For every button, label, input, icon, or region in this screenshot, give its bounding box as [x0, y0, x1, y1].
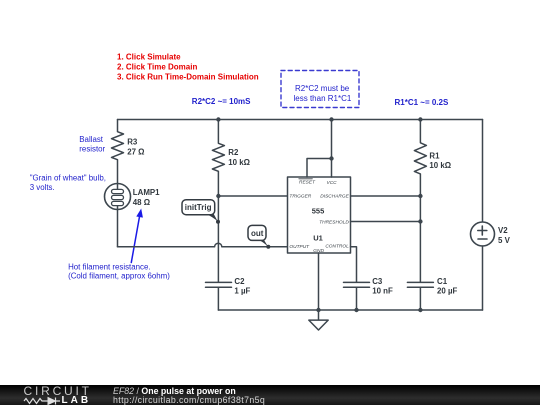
annotation blue arrow to lamp — [131, 209, 143, 263]
capacitor C1 — [407, 277, 457, 310]
svg-text:5 V: 5 V — [498, 236, 511, 245]
ground — [309, 310, 328, 330]
svg-text:THRESHOLD: THRESHOLD — [319, 220, 349, 226]
svg-text:R1*C1 ~= 0.2S: R1*C1 ~= 0.2S — [395, 98, 449, 107]
svg-text:2. Click Time Domain: 2. Click Time Domain — [117, 63, 197, 72]
svg-text:(Cold filament, approx 6ohm): (Cold filament, approx 6ohm) — [68, 271, 170, 280]
svg-text:C3: C3 — [372, 277, 383, 286]
svg-text:1. Click Simulate: 1. Click Simulate — [117, 52, 181, 61]
node C1 bottom rail junction — [418, 308, 422, 312]
annotation Ballast resistor — [79, 135, 105, 154]
wire R1 to C1 — [419, 196, 421, 282]
svg-text:Ballast: Ballast — [79, 135, 103, 144]
svg-text:C1: C1 — [437, 277, 448, 286]
footer title — [113, 386, 236, 396]
svg-text:R2*C2 must be: R2*C2 must be — [295, 84, 350, 93]
svg-text:C2: C2 — [234, 277, 245, 286]
node top rail R1 junction — [418, 117, 422, 121]
voltage source V2 — [471, 120, 511, 311]
svg-text:TRIGGER: TRIGGER — [289, 194, 311, 200]
wire gnd pin down — [318, 253, 320, 310]
wire trigger net horizontal — [218, 195, 287, 197]
wire reset pin to vcc — [307, 159, 332, 178]
svg-text:R2*C2 ~= 10mS: R2*C2 ~= 10mS — [192, 97, 251, 106]
svg-text:R3: R3 — [127, 138, 138, 147]
node reset vcc junction — [329, 156, 333, 160]
svg-text:RESET: RESET — [299, 179, 316, 185]
svg-text:27 Ω: 27 Ω — [127, 147, 144, 156]
node gnd bottom rail junction — [316, 308, 320, 312]
svg-text:R1: R1 — [429, 151, 440, 160]
node top rail R2 junction — [216, 117, 220, 121]
wire discharge net — [351, 195, 421, 197]
svg-text:OUTPUT: OUTPUT — [289, 244, 310, 250]
svg-text:10 kΩ: 10 kΩ — [228, 158, 250, 167]
node top rail vcc junction — [329, 117, 333, 121]
resistor R1 — [414, 120, 451, 197]
wire trigger net vertical to C2 — [217, 196, 219, 282]
svg-text:out: out — [251, 229, 264, 238]
node C3 bottom rail junction — [354, 308, 358, 312]
node threshold junction — [418, 219, 422, 223]
resistor R2 — [212, 120, 250, 197]
svg-text:1 µF: 1 µF — [234, 287, 250, 296]
node discharge junction — [418, 194, 422, 198]
wire bottom rail — [218, 309, 482, 311]
svg-text:U1: U1 — [313, 234, 323, 243]
wire output net with hop over trigger net — [118, 243, 288, 247]
svg-text:R2: R2 — [228, 148, 239, 157]
svg-text:resistor: resistor — [79, 145, 105, 154]
svg-text:555: 555 — [312, 207, 325, 216]
lamp LAMP1 — [105, 184, 161, 210]
footer bar — [0, 385, 540, 405]
op-amp U1 555 timer box — [288, 177, 351, 254]
resistor R3 — [112, 120, 145, 184]
svg-text:"Grain of wheat" bulb,: "Grain of wheat" bulb, — [30, 173, 106, 182]
svg-text:less than R1*C1: less than R1*C1 — [294, 94, 352, 103]
capacitor C3 — [344, 277, 393, 310]
svg-text:DISCHARGE: DISCHARGE — [320, 194, 349, 200]
annotation dashed note box R2*C2 must be less than R1*C1 — [281, 71, 359, 108]
footer url — [113, 395, 265, 405]
node trigger junction — [216, 194, 220, 198]
svg-text:10 kΩ: 10 kΩ — [429, 161, 451, 170]
wire threshold net — [351, 221, 421, 223]
annotation red instructions — [117, 52, 259, 81]
svg-text:CONTROL: CONTROL — [325, 243, 349, 249]
flag out — [248, 225, 270, 248]
svg-text:initTrig: initTrig — [185, 203, 212, 212]
annotation Grain of wheat bulb — [30, 173, 106, 192]
capacitor C2 — [206, 277, 251, 310]
wire lamp to output net — [117, 210, 119, 247]
annotation Hot filament resistance — [68, 262, 170, 280]
svg-text:VCC: VCC — [327, 180, 338, 186]
svg-text:Hot filament resistance.: Hot filament resistance. — [68, 262, 150, 271]
svg-text:48 Ω: 48 Ω — [133, 198, 150, 207]
svg-text:V2: V2 — [498, 226, 508, 235]
svg-text:3 volts.: 3 volts. — [30, 183, 55, 192]
svg-text:3. Click Run Time-Domain Simul: 3. Click Run Time-Domain Simulation — [117, 73, 259, 82]
CircuitLab logo — [24, 384, 92, 398]
svg-text:20 µF: 20 µF — [437, 287, 458, 296]
wire top rail — [118, 119, 483, 121]
svg-text:10 nF: 10 nF — [372, 287, 393, 296]
wire vcc pin to top rail — [331, 120, 333, 178]
wire control net to C3 — [351, 247, 357, 282]
flag initTrig — [182, 200, 220, 224]
svg-text:LAMP1: LAMP1 — [133, 188, 160, 197]
